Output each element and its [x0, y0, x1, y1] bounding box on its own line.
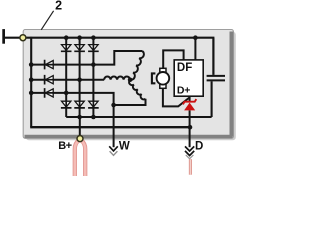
diode D6 (plus, phase3) — [88, 101, 99, 108]
node: star center — [128, 78, 133, 83]
panel right border — [229, 32, 233, 137]
wire: W terminal drop — [113, 105, 115, 147]
node: bus-phase1 — [64, 35, 69, 40]
wire: phase 2 vertical — [79, 38, 81, 117]
diode D5 (plus, phase2) — [74, 101, 85, 108]
node: bus-regulator — [193, 35, 198, 40]
node: bus-phase3 — [91, 35, 96, 40]
diode D3 (minus, phase3) — [88, 45, 99, 52]
diode D1 (minus, phase1) — [61, 45, 72, 52]
D terminal arrow — [185, 146, 194, 155]
svg-text:W: W — [119, 140, 130, 152]
capacitor C1 plates — [207, 76, 225, 81]
svg-text:2: 2 — [55, 0, 62, 13]
capacitor C1 bottom lead — [211, 81, 213, 117]
alternator housing panel (gray) shadow — [26, 32, 236, 140]
capacitor C1 top lead — [212, 38, 214, 75]
rotor brush lower — [160, 84, 166, 88]
wire: D terminal drop — [189, 110, 191, 147]
rotor field bracket — [152, 73, 156, 83]
B+ cable left wall (red) — [75, 140, 79, 176]
alternator housing panel — [23, 30, 233, 139]
node: bus-phase2 — [77, 35, 82, 40]
svg-text:DF: DF — [177, 62, 192, 74]
wire: B+ bottom bus — [66, 116, 211, 118]
regulator box U1 — [174, 60, 203, 96]
W terminal arrow second chevron — [110, 151, 118, 155]
W terminal arrow — [109, 146, 118, 151]
ground terminal bar — [2, 29, 5, 44]
diode D7 (exciter, line1) — [45, 60, 54, 70]
wire: housing bottom edge — [30, 126, 190, 128]
wire: D+ lead below regulator — [189, 96, 191, 102]
wire: phase 1 vertical — [65, 38, 67, 117]
wire: rotor top brush to DF — [163, 50, 183, 68]
B+ cable right wall (red) — [81, 140, 85, 176]
node: left edge line1 — [29, 62, 34, 67]
svg-text:D+: D+ — [177, 85, 190, 97]
wire: regulator top lead from bus — [194, 38, 196, 60]
zener diode ZD1 bar (red) — [183, 99, 196, 104]
wire: phase 3 vertical — [92, 38, 94, 117]
svg-text:B+: B+ — [58, 140, 71, 152]
wire: lower winding to W node — [114, 99, 146, 105]
node: phase2-line2 — [77, 77, 82, 82]
diode D4 (plus, phase1) — [61, 101, 72, 108]
pointer line for label 2 — [41, 11, 53, 30]
wire: exciter line 3 — [31, 93, 113, 105]
zener diode ZD1 triangle (red) — [184, 103, 195, 111]
rotor slip ring circle — [157, 72, 170, 85]
panel bottom border — [25, 135, 233, 138]
wire: ground terminal to housing — [5, 37, 31, 39]
node: B+ bus phase3 — [91, 115, 96, 120]
svg-text:D: D — [195, 141, 203, 153]
node: D line housing bottom — [188, 125, 193, 130]
node: W junction — [111, 103, 116, 108]
node: left edge line2 — [29, 77, 34, 82]
wire: exciter line 1 — [31, 64, 93, 66]
stator winding L1 (upper) — [130, 51, 144, 80]
wire: exciter line 2 — [31, 79, 104, 81]
wire: rotor bottom brush to D+ node — [163, 88, 190, 106]
wire: top bus (D-) — [31, 37, 214, 39]
terminal dot: ground (yellow) — [20, 35, 26, 41]
node: phase1-line3 — [64, 91, 69, 96]
terminal dot: B+ (yellow) — [77, 136, 83, 142]
stator winding L3 (lower) — [129, 80, 145, 100]
diode D2 (minus, phase2) — [74, 45, 85, 52]
diode D9 (exciter, line3) — [45, 88, 54, 98]
wire: B+ terminal drop — [79, 117, 81, 139]
node: left edge line3 — [29, 91, 34, 96]
rotor brush upper — [160, 68, 166, 72]
node: phase3-line1 — [91, 62, 96, 67]
D terminal arrow faint chevron — [186, 155, 194, 159]
node: B+ bus phase2 — [77, 115, 82, 120]
D cable stub (red) — [189, 159, 192, 175]
stator winding L2 (left) — [104, 77, 130, 80]
wire: phase3 to upper winding — [93, 51, 142, 65]
wire: housing left edge / exciter bus — [30, 37, 32, 128]
diode D8 (exciter, line2) — [45, 75, 54, 85]
